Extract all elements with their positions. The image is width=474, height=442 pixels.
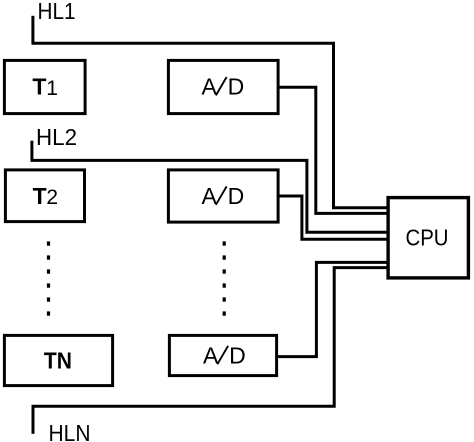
wire HLN stub tick — [32, 405, 35, 434]
svg-text:D: D — [228, 74, 245, 100]
block T1 — [4, 60, 85, 113]
svg-text:HL1: HL1 — [38, 0, 76, 24]
svg-text:TN: TN — [44, 348, 72, 374]
wire A/D3 to CPU — [278, 262, 386, 356]
svg-text:A: A — [202, 74, 218, 100]
svg-text:2: 2 — [46, 186, 58, 209]
wire HL1 to CPU — [32, 43, 387, 208]
block A/D 1 — [168, 60, 278, 113]
wire HLN to CPU — [32, 268, 387, 407]
svg-text:1: 1 — [46, 77, 58, 100]
block A/D 3 — [169, 335, 276, 375]
dotted continuation line (T column) — [47, 241, 50, 315]
wire A/D1 to CPU — [278, 87, 386, 213]
svg-text:HLN: HLN — [49, 420, 91, 442]
wire A/D2 to CPU — [278, 196, 386, 239]
wire HL2 to CPU — [31, 160, 387, 232]
svg-text:T: T — [33, 183, 47, 209]
svg-text:T: T — [32, 74, 46, 100]
block TN — [4, 335, 112, 385]
wire HL1 stub tick — [31, 16, 34, 44]
svg-text:D: D — [228, 183, 245, 209]
dotted continuation line (A/D column) — [223, 241, 226, 315]
wire HL2 stub tick — [30, 141, 33, 161]
svg-text:D: D — [229, 342, 246, 368]
svg-text:CPU: CPU — [406, 225, 449, 251]
block CPU — [388, 198, 468, 278]
block A/D 2 — [168, 170, 278, 222]
block T2 — [5, 170, 84, 222]
svg-text:HL2: HL2 — [36, 124, 77, 150]
svg-text:A: A — [202, 183, 218, 209]
svg-text:A: A — [203, 342, 219, 368]
